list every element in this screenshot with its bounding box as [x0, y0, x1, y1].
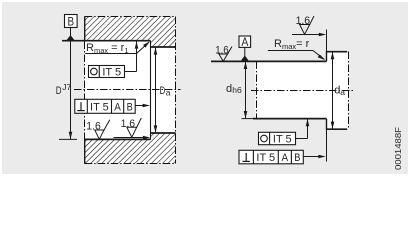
- flange top line: [327, 51, 348, 53]
- svg-text:IT 5: IT 5: [273, 134, 292, 146]
- bore bottom extension line: [59, 138, 77, 140]
- label D J7: [56, 82, 72, 97]
- shaft bottom surface line: [242, 118, 254, 120]
- svg-text:A: A: [282, 152, 289, 164]
- datum A triangle: [241, 55, 249, 61]
- shoulder surface top line: [151, 46, 176, 48]
- datum box A: [239, 36, 251, 49]
- svg-text:IT 5: IT 5: [90, 101, 109, 113]
- label Da: [160, 85, 171, 98]
- svg-text:B: B: [127, 101, 133, 113]
- circularity frame O IT5 (right): [259, 132, 296, 145]
- housing break outline dash-dot right edge: [175, 17, 177, 164]
- dimension da line with arrows: [331, 52, 335, 130]
- datum A stem: [244, 47, 246, 56]
- housing face line top: [84, 16, 86, 41]
- svg-text:IT 5: IT 5: [256, 152, 275, 164]
- svg-text:D: D: [160, 85, 166, 97]
- shoulder step face line + extension: [150, 41, 152, 140]
- svg-text:IT 5: IT 5: [102, 67, 121, 79]
- Rmax diagonal leader arrow to fillet (right): [313, 51, 325, 61]
- housing face line bottom: [84, 139, 86, 164]
- centerline right figure: [251, 90, 354, 92]
- svg-text:h6: h6: [232, 85, 242, 95]
- datum B stem: [70, 28, 72, 36]
- Rmax underline: [85, 53, 136, 55]
- svg-text:1.6: 1.6: [86, 120, 101, 132]
- circularity leader horizontal: [125, 71, 137, 73]
- label Rmax = r (right): [274, 38, 310, 51]
- housing break outline dash-dot top edge: [85, 16, 176, 18]
- circularity leader (right): [296, 119, 310, 139]
- dimension Da line with arrows: [154, 47, 158, 133]
- hatch housing top block: [85, 17, 176, 47]
- flange bottom line: [327, 128, 348, 130]
- Rmax underline (right): [268, 50, 313, 52]
- svg-text:D: D: [56, 85, 62, 97]
- label Rmax = r1: [86, 42, 129, 55]
- svg-text:B: B: [294, 152, 300, 164]
- svg-text:B: B: [68, 14, 75, 28]
- svg-text:1.6: 1.6: [296, 15, 311, 27]
- perpendicularity frame IT5 A B (left): [75, 99, 135, 113]
- circularity frame O IT5: [89, 66, 125, 79]
- shoulder surface bottom line: [151, 132, 176, 134]
- svg-text:1.6: 1.6: [121, 118, 136, 130]
- flange face line + extensions: [326, 30, 328, 162]
- shaft part white interior (right figure): [256, 52, 349, 130]
- Rmax diagonal leader arrow to fillet: [137, 42, 150, 54]
- svg-text:J7: J7: [62, 82, 71, 92]
- hatch housing bottom block: [85, 133, 176, 163]
- flange break edge dash-dot: [348, 52, 350, 130]
- shaft face plane dash-dot vertical: [256, 61, 258, 118]
- roughness mark 1.6 with leader to flange face (right fig): [292, 15, 326, 36]
- svg-text:a: a: [166, 88, 171, 98]
- dimension D line: [70, 41, 72, 140]
- dimension d h6 line with arrows: [244, 61, 248, 118]
- housing break outline dash-dot bottom edge: [85, 163, 176, 165]
- bore surface bottom line: [85, 138, 151, 140]
- dimension D bottom arrow: [69, 132, 73, 139]
- shaft top surface + extension line: [211, 60, 327, 62]
- perpendicularity leader arrow (left): [135, 104, 150, 108]
- roughness mark 1.6 on shaft seat (right fig): [215, 45, 232, 62]
- svg-text:A: A: [241, 37, 248, 49]
- datum box B: [65, 14, 78, 28]
- label da: [334, 85, 345, 98]
- label d h6: [226, 83, 242, 95]
- roughness mark 1.6 with leader to shoulder face (left fig): [114, 118, 151, 139]
- gray panel background: [2, 2, 408, 174]
- roughness mark 1.6 on bore (left fig): [86, 120, 110, 140]
- datum B triangle: [66, 35, 75, 41]
- svg-text:d: d: [226, 83, 232, 95]
- svg-text:A: A: [114, 101, 121, 113]
- bore surface top line: [62, 40, 151, 42]
- circularity leader vertical with up arrow: [135, 41, 139, 71]
- svg-text:a: a: [340, 87, 345, 97]
- svg-text:0001488F: 0001488F: [394, 127, 403, 170]
- centerline left figure: [74, 89, 181, 91]
- bore axis-plane dash-dot vertical: [84, 42, 86, 140]
- perpendicularity leader arrow (right): [303, 155, 326, 159]
- perpendicularity frame IT5 A B (right): [239, 150, 303, 164]
- housing part white interior (left figure): [85, 17, 176, 164]
